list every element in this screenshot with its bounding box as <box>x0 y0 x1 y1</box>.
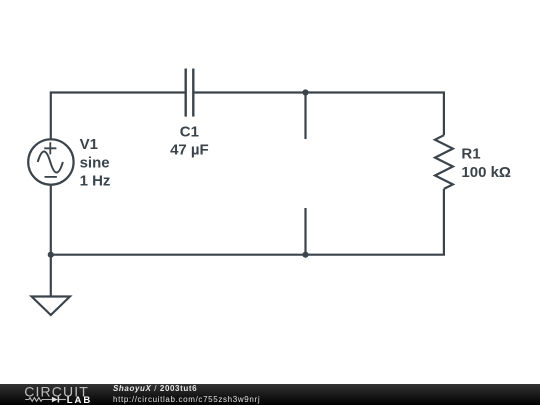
wire: stub up from node B <box>304 208 306 255</box>
voltage source V1 <box>28 139 73 184</box>
ground <box>32 297 70 316</box>
capacitor C1 <box>186 69 194 117</box>
CircuitLab logo <box>22 384 100 405</box>
svg-text:sine: sine <box>80 155 110 172</box>
wire: V1 plus terminal up and top rail to C1 left plate <box>51 93 186 140</box>
wire: R1 bottom down and bottom rail to ground node <box>51 189 444 255</box>
svg-text:V1: V1 <box>80 136 98 153</box>
svg-text:100 kΩ: 100 kΩ <box>461 164 511 181</box>
svg-text:LAB: LAB <box>67 395 93 405</box>
svg-text:R1: R1 <box>461 146 480 163</box>
label V1 value <box>80 136 111 190</box>
ground node junction dot <box>48 252 54 258</box>
resistor R1 <box>435 135 453 189</box>
svg-text:47 µF: 47 µF <box>170 141 209 158</box>
wire: V1 minus terminal down to bottom rail <box>50 185 52 255</box>
label C1 value <box>170 124 209 159</box>
node B junction dot <box>302 252 308 258</box>
svg-text:C1: C1 <box>180 124 199 141</box>
wire: C1 right plate along top rail to R1 top <box>193 93 444 136</box>
node A junction dot <box>302 89 308 95</box>
footer bar <box>0 384 540 405</box>
wire: ground lead <box>50 255 52 297</box>
label R1 value <box>461 146 511 182</box>
svg-text:1 Hz: 1 Hz <box>80 173 111 190</box>
credit text <box>113 384 260 405</box>
wire: stub down from node A <box>304 93 306 140</box>
